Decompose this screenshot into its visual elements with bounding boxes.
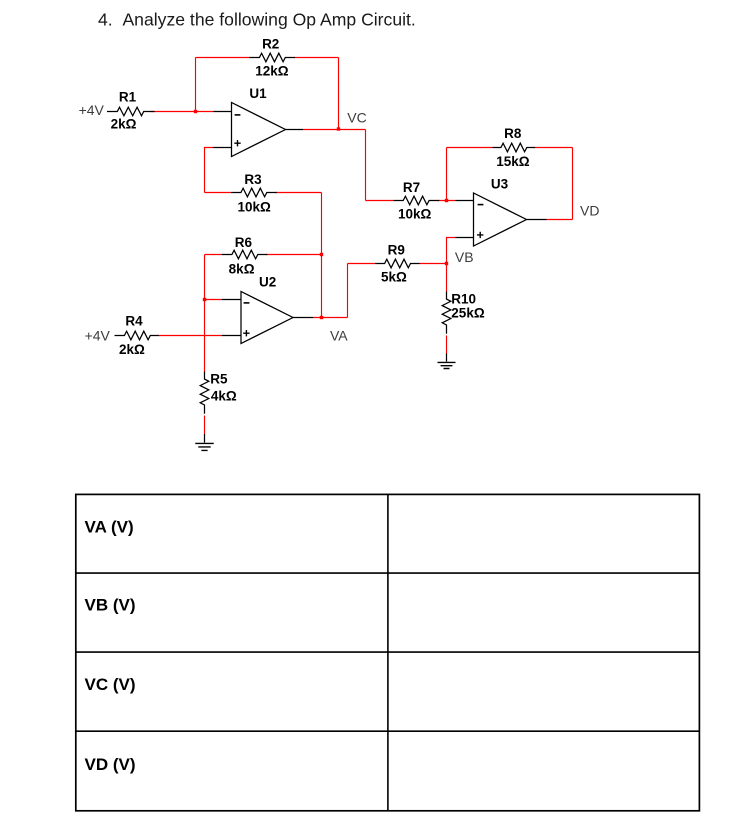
wire VB down to R10 xyxy=(446,264,448,292)
svg-text:VB (V): VB (V) xyxy=(85,595,136,614)
wire R6 row right xyxy=(266,254,322,256)
svg-text:25kΩ: 25kΩ xyxy=(451,306,485,321)
svg-text:U3: U3 xyxy=(491,177,509,192)
resistor R1 xyxy=(107,107,154,116)
junction dot VA xyxy=(320,316,323,319)
wire to R7 left xyxy=(366,200,394,202)
resistor R10 (vertical) xyxy=(442,292,451,334)
svg-text:R6: R6 xyxy=(235,235,253,250)
wire U1 plus corner down to R3 xyxy=(205,148,214,193)
svg-text:4. Analyze the following Op A: 4. Analyze the following Op Amp Circuit. xyxy=(98,10,416,30)
wire R8 corner down to VD xyxy=(572,148,574,220)
wire R2 row left xyxy=(196,57,250,59)
wire R6 row left xyxy=(205,254,223,256)
junction dot VB xyxy=(445,262,448,265)
wire U2 minus pin xyxy=(205,299,223,301)
svg-text:R4: R4 xyxy=(125,314,143,329)
resistor R3 xyxy=(231,188,277,197)
wire junction up to R2 row xyxy=(195,58,197,112)
wire R4 to U2 plus xyxy=(158,335,222,337)
junction dot VC xyxy=(337,127,340,130)
svg-text:8kΩ: 8kΩ xyxy=(229,262,255,277)
svg-text:VD (V): VD (V) xyxy=(85,755,136,774)
svg-text:R9: R9 xyxy=(388,242,405,257)
junction dot R7 R8 xyxy=(445,199,448,202)
svg-text:+4V: +4V xyxy=(79,102,105,118)
svg-text:R1: R1 xyxy=(119,90,137,105)
table frame xyxy=(76,494,700,810)
junction dot U2 minus xyxy=(203,298,206,301)
svg-text:VA (V): VA (V) xyxy=(85,518,134,537)
svg-text:2kΩ: 2kΩ xyxy=(119,342,145,357)
wire R7 right to U3 minus xyxy=(438,200,456,202)
table row line 3 xyxy=(76,730,700,732)
svg-text:R8: R8 xyxy=(504,126,522,141)
svg-text:R2: R2 xyxy=(262,36,279,51)
svg-text:+4V: +4V xyxy=(85,327,111,343)
wire R2 corner down to VC xyxy=(338,58,340,130)
svg-text:R3: R3 xyxy=(244,172,262,187)
wire mid column R3 corner down to VA xyxy=(321,193,323,318)
svg-text:12kΩ: 12kΩ xyxy=(255,64,289,79)
wire U3 plus corner xyxy=(447,238,456,264)
junction dot R6 right xyxy=(320,253,323,256)
wire U1 output to VC xyxy=(303,129,366,131)
wire R8 row left xyxy=(447,147,493,149)
svg-text:VD: VD xyxy=(580,203,599,219)
table divider vertical xyxy=(387,494,389,810)
svg-text:5kΩ: 5kΩ xyxy=(381,270,407,285)
svg-text:VC (V): VC (V) xyxy=(85,675,136,694)
resistor R8 xyxy=(493,143,536,152)
resistor R2 xyxy=(249,53,295,62)
wire VC down to R7 row xyxy=(365,130,367,201)
resistor R6 xyxy=(222,250,267,259)
wire VA up to R9 row xyxy=(347,264,349,318)
wire R3 row left xyxy=(205,192,232,194)
resistor R5 (vertical) xyxy=(200,372,209,414)
op-amp U2 xyxy=(241,292,293,344)
svg-text:10kΩ: 10kΩ xyxy=(398,207,432,222)
svg-text:R7: R7 xyxy=(403,180,420,195)
wire R2 row right xyxy=(295,57,339,59)
wire R1 to U1 minus junction xyxy=(151,111,214,113)
junction dot U1 minus input xyxy=(194,110,197,113)
wire R9 right to VB xyxy=(420,263,447,265)
svg-text:U2: U2 xyxy=(259,275,276,290)
wire U2 output to VA xyxy=(313,317,348,319)
resistor R4 xyxy=(115,331,159,340)
wire VD to U3 output xyxy=(547,219,573,221)
wire R3 row right xyxy=(276,192,322,194)
svg-text:2kΩ: 2kΩ xyxy=(111,116,137,131)
resistor R9 xyxy=(375,259,420,268)
svg-text:4kΩ: 4kΩ xyxy=(211,388,237,403)
svg-text:VC: VC xyxy=(347,110,366,126)
svg-text:U1: U1 xyxy=(249,86,267,101)
table row line 1 xyxy=(76,572,700,574)
ground below R5 xyxy=(195,443,213,450)
svg-text:15kΩ: 15kΩ xyxy=(496,154,530,169)
wire left column R6 down to R5 xyxy=(204,255,206,372)
wire R8 row right xyxy=(535,147,573,149)
svg-text:VB: VB xyxy=(455,249,474,265)
svg-text:10kΩ: 10kΩ xyxy=(238,199,272,214)
svg-text:R10: R10 xyxy=(451,291,476,306)
op-amp U1 xyxy=(232,103,286,157)
ground below R10 xyxy=(438,362,456,368)
wire junction up to R8 row xyxy=(446,148,448,201)
wire R9 row left corner xyxy=(348,263,376,265)
svg-text:R5: R5 xyxy=(210,371,228,386)
op-amp U3 xyxy=(474,193,527,246)
svg-text:VA: VA xyxy=(330,327,348,343)
resistor R7 xyxy=(394,196,440,205)
wire R5 bottom to ground xyxy=(204,416,206,435)
table row line 2 xyxy=(76,651,700,653)
wire R10 bottom to ground xyxy=(446,336,448,354)
